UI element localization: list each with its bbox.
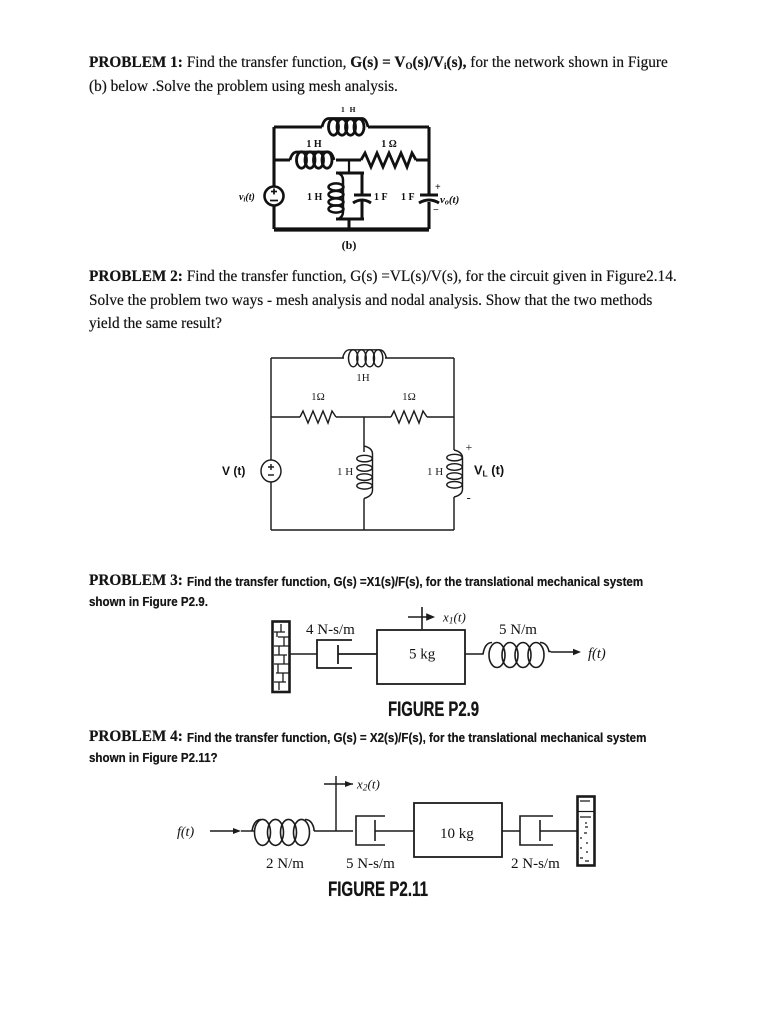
mass M1 (5 kg) [377,630,465,684]
force arrow P4 [210,828,241,834]
svg-text:1 H: 1 H [337,466,353,478]
node x2 reference line [324,776,353,831]
svg-text:2 N-s/m: 2 N-s/m [511,856,560,872]
wire mid row right [416,159,429,162]
wire mid row center [336,159,361,162]
resistor R2 (1 ohm left) [300,411,336,423]
mass M2 (10 kg) [414,803,502,857]
svg-text:5 N-s/m: 5 N-s/m [346,856,395,872]
wire left edge lower [272,206,275,229]
wire top edge right [385,357,454,359]
svg-text:1 H: 1 H [427,466,443,478]
capacitor C2 (1 F output) [419,195,439,203]
wire arrow to spring [241,830,255,832]
Problem 2 text [89,265,677,336]
wire node stub down [348,160,350,173]
inductor L1 (top, 1H) [322,119,368,136]
spring K1 (5 N/m) [465,643,551,668]
svg-text:5 kg: 5 kg [409,647,436,663]
wire right edge upper [453,358,455,450]
svg-text:-: - [467,490,471,505]
svg-text:x2(t): x2(t) [356,777,380,794]
wire bottom edge [271,529,454,531]
wire top edge right [368,125,429,128]
wire right edge lower [427,202,430,229]
Problem 3 text [89,569,183,593]
wire middle branch lower [363,499,365,531]
svg-text:f(t): f(t) [177,825,194,840]
damper B3 (2 N-s/m) [520,816,577,845]
svg-text:1Ω: 1Ω [311,391,325,403]
svg-text:1Ω: 1Ω [402,391,416,403]
svg-text:vi(t): vi(t) [239,192,255,204]
svg-text:V (t): V (t) [222,464,245,478]
wire middle branch upper [363,417,365,452]
inductor L2 (1 H mid row) [290,152,334,168]
wire LC top bar [336,172,364,175]
svg-text:VL (t): VL (t) [474,463,504,479]
svg-text:f(t): f(t) [588,646,606,662]
inductor L3 (1 H vertical in LC) [329,173,344,219]
wire mass to damper2 [502,830,520,832]
wire mid row [271,416,454,418]
wire bottom edge [274,227,429,231]
inductor L5 (middle 1H) [357,446,373,499]
force arrow f(t) [551,649,581,655]
inductor L4 (top 1H) [343,350,387,367]
svg-text:+: + [466,440,473,454]
node x1 reference arrow [408,607,433,629]
svg-text:10 kg: 10 kg [440,826,474,842]
svg-text:+: + [435,182,441,193]
wire spring to node [314,830,353,832]
wire left edge upper [270,358,272,460]
wire left edge lower [270,482,272,530]
resistor R1 (1 ohm) [361,153,416,167]
inductor L6 (right 1H) [447,450,463,497]
spring K2 (2 N/m) [252,819,314,845]
wire LC bottom bar [336,218,364,221]
wall left [273,622,290,693]
svg-text:1H: 1H [356,372,370,384]
capacitor C1 (1 F in LC) [353,173,371,219]
wire LC bottom stub [348,219,351,229]
wire right edge lower [453,497,455,530]
Problem 4 text [89,725,183,749]
svg-text:x1(t): x1(t) [442,610,466,627]
wire top edge left [274,125,322,128]
svg-text:1 H: 1 H [341,105,357,114]
svg-text:2 N/m: 2 N/m [266,856,304,872]
Problem 1 text [89,51,668,98]
wire right edge upper [427,127,430,194]
source V2 V(t) [261,460,281,482]
svg-text:(b): (b) [342,238,357,252]
svg-text:1 H: 1 H [306,139,322,150]
svg-text:1 Ω: 1 Ω [381,139,397,150]
Figure P2.9 caption [388,700,479,720]
wire top edge left [271,357,344,359]
resistor R3 (1 ohm right) [391,411,427,423]
damper B1 (4 N-s/m) [317,640,377,668]
svg-text:vo(t): vo(t) [440,194,459,207]
wall right [578,797,595,866]
wire wall to damper [289,653,317,655]
svg-text:−: − [433,205,439,216]
wire mid row left [274,159,290,162]
svg-text:4 N-s/m: 4 N-s/m [306,622,355,638]
source V1 vi(t) [265,187,284,206]
damper B2 (5 N-s/m) [356,816,414,845]
svg-text:1 F: 1 F [401,192,415,203]
svg-text:1 H: 1 H [307,192,323,203]
svg-text:1 F: 1 F [374,192,388,203]
Figure P2.11 caption [328,880,428,900]
svg-text:5 N/m: 5 N/m [499,622,537,638]
wire left edge [272,127,275,187]
